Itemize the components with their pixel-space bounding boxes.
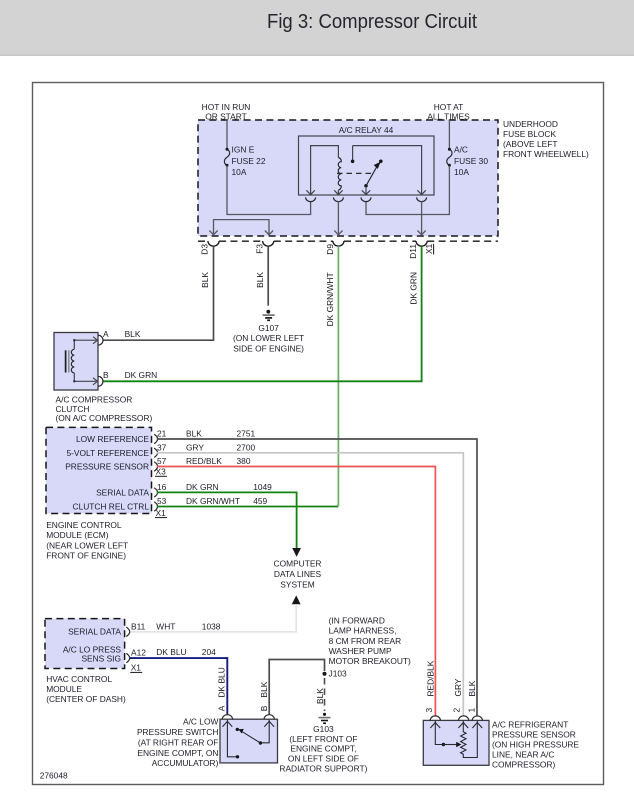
- svg-text:A/C REFRIGERANT: A/C REFRIGERANT: [492, 720, 568, 730]
- svg-text:3: 3: [424, 708, 434, 713]
- label HVAC CONTROL MODULE: [46, 674, 126, 704]
- svg-text:(ON HIGH PRESSURE: (ON HIGH PRESSURE: [492, 740, 579, 750]
- ground G107: [233, 310, 304, 353]
- svg-text:204: 204: [202, 647, 216, 657]
- svg-text:WASHER PUMP: WASHER PUMP: [329, 646, 392, 656]
- relay switch arm: [362, 160, 383, 195]
- svg-text:X3: X3: [156, 466, 167, 476]
- wire DK GRN/WHT D9 to ECM pin 53: [337, 246, 339, 506]
- svg-text:ON LEFT SIDE OF: ON LEFT SIDE OF: [288, 754, 359, 764]
- svg-text:D11: D11: [408, 244, 418, 259]
- svg-text:(ABOVE LEFT: (ABOVE LEFT: [503, 139, 557, 149]
- wire BLK F3 to G107: [267, 246, 269, 305]
- svg-text:8 CM FROM REAR: 8 CM FROM REAR: [329, 636, 402, 646]
- wire DK GRN/WHT 459 pin53: [157, 506, 339, 508]
- HVAC connector X1 label: [130, 662, 142, 672]
- wire label DK GRN 1049: [186, 482, 272, 492]
- wire DK GRN D11 to clutch pin B: [103, 246, 422, 381]
- svg-text:DK GRN: DK GRN: [186, 482, 219, 492]
- wire WHT 1038 HVAC B11 to data lines: [130, 604, 296, 632]
- svg-text:D3: D3: [200, 244, 210, 255]
- node HOT IN RUN OR START: [202, 102, 251, 122]
- svg-text:37: 37: [157, 442, 167, 452]
- relay fixed contact stub: [351, 146, 355, 164]
- svg-text:ACCUMULATOR): ACCUMULATOR): [152, 758, 219, 768]
- relay pin cups: [306, 197, 427, 201]
- svg-text:X1: X1: [156, 508, 167, 518]
- wire BLK pressure switch B to J103: [269, 660, 324, 715]
- label ENGINE CONTROL MODULE (ECM): [46, 520, 128, 561]
- svg-text:LOW REFERENCE: LOW REFERENCE: [76, 434, 149, 444]
- svg-text:DK GRN: DK GRN: [125, 370, 158, 380]
- svg-text:10A: 10A: [454, 167, 469, 177]
- svg-text:X1: X1: [424, 243, 434, 254]
- svg-text:PRESSURE SWITCH: PRESSURE SWITCH: [137, 727, 218, 737]
- svg-text:BLK: BLK: [259, 681, 269, 697]
- svg-text:2700: 2700: [237, 442, 256, 452]
- underhood fuse block box: [198, 120, 498, 236]
- label A/C LOW PRESSURE SWITCH: [137, 717, 219, 769]
- wire DK BLU 204 A12 to pressure switch A: [130, 658, 228, 715]
- ECM connector X3 label: [155, 466, 167, 476]
- svg-text:ENGINE CONTROL: ENGINE CONTROL: [46, 520, 122, 530]
- svg-text:GRY: GRY: [186, 442, 204, 452]
- svg-text:SENS SIG: SENS SIG: [81, 653, 121, 663]
- svg-text:MODULE (ECM): MODULE (ECM): [46, 530, 109, 540]
- svg-text:10A: 10A: [232, 167, 247, 177]
- svg-text:COMPRESSOR): COMPRESSOR): [492, 760, 555, 770]
- svg-text:SYSTEM: SYSTEM: [280, 580, 314, 590]
- svg-text:1: 1: [466, 708, 476, 713]
- svg-text:5-VOLT REFERENCE: 5-VOLT REFERENCE: [66, 448, 149, 458]
- svg-text:(ON A/C COMPRESSOR): (ON A/C COMPRESSOR): [56, 413, 153, 423]
- svg-text:380: 380: [237, 456, 251, 466]
- svg-text:1049: 1049: [253, 482, 272, 492]
- wire BLK 2751 pin21 to sensor pin1: [157, 439, 477, 716]
- svg-text:(AT RIGHT REAR OF: (AT RIGHT REAR OF: [138, 737, 219, 747]
- svg-text:A/C RELAY 44: A/C RELAY 44: [339, 125, 394, 135]
- svg-text:53: 53: [157, 496, 167, 506]
- HVAC pin arcs: [126, 627, 129, 663]
- svg-text:BLK: BLK: [200, 272, 210, 288]
- svg-text:Fig 3: Compressor Circuit: Fig 3: Compressor Circuit: [267, 10, 477, 33]
- svg-text:21: 21: [157, 429, 167, 439]
- svg-text:BLK: BLK: [255, 272, 265, 288]
- svg-text:MODULE: MODULE: [46, 684, 82, 694]
- svg-text:276048: 276048: [40, 771, 68, 781]
- svg-text:1038: 1038: [202, 621, 221, 631]
- relay coil-switch link (dashed): [337, 172, 372, 174]
- svg-text:(IN FORWARD: (IN FORWARD: [329, 615, 385, 625]
- svg-text:2: 2: [451, 708, 461, 713]
- svg-text:LAMP HARNESS,: LAMP HARNESS,: [329, 626, 397, 636]
- svg-text:HOT IN RUN: HOT IN RUN: [202, 102, 251, 112]
- svg-text:UNDERHOOD: UNDERHOOD: [503, 119, 558, 129]
- fuse F22 IGN E 10A: [224, 145, 265, 178]
- svg-text:SERIAL DATA: SERIAL DATA: [96, 487, 149, 497]
- svg-text:BLK: BLK: [315, 688, 325, 704]
- svg-text:GRY: GRY: [453, 678, 463, 696]
- svg-text:(CENTER OF DASH): (CENTER OF DASH): [46, 694, 126, 704]
- svg-text:FRONT WHEELWELL): FRONT WHEELWELL): [503, 149, 589, 159]
- wire hot-at-all-times feed to fuse 30: [448, 120, 450, 149]
- relay coil branch wire: [306, 146, 338, 195]
- svg-text:WHT: WHT: [156, 621, 175, 631]
- header bar: [0, 0, 634, 56]
- svg-text:CLUTCH REL CTRL: CLUTCH REL CTRL: [73, 502, 150, 512]
- svg-text:FUSE BLOCK: FUSE BLOCK: [503, 129, 556, 139]
- svg-text:57: 57: [157, 456, 167, 466]
- pressure sensor R1 A/C REFRIGERANT PRESSURE SENSOR: [423, 716, 489, 765]
- label UNDERHOOD FUSE BLOCK: [503, 119, 589, 159]
- svg-text:DK BLU: DK BLU: [216, 667, 226, 697]
- svg-text:2751: 2751: [237, 429, 256, 439]
- wire DK GRN 1049 pin16 to data lines: [157, 492, 297, 548]
- svg-text:SIDE OF ENGINE): SIDE OF ENGINE): [233, 343, 304, 353]
- svg-text:DK GRN/WHT: DK GRN/WHT: [325, 272, 335, 326]
- svg-text:DK BLU: DK BLU: [156, 647, 186, 657]
- wire GRY 2700 pin37 to sensor pin2: [157, 453, 464, 716]
- wire label RED/BLK 380: [186, 456, 251, 466]
- svg-text:BLK: BLK: [186, 429, 202, 439]
- svg-text:G107: G107: [258, 323, 279, 333]
- wire relay coil- to D9: [334, 201, 342, 235]
- ground G103: [279, 713, 367, 774]
- wire BLK dashed J103 to G103: [324, 678, 326, 711]
- connector X1 label (fuse block): [424, 243, 434, 254]
- svg-text:IGN E: IGN E: [232, 145, 255, 155]
- wire fuse22 to relay coil pin: [227, 166, 311, 215]
- svg-text:(NEAR LOWER LEFT: (NEAR LOWER LEFT: [46, 540, 128, 550]
- svg-text:(LEFT FRONT OF: (LEFT FRONT OF: [289, 734, 357, 744]
- svg-text:459: 459: [253, 496, 267, 506]
- svg-text:F3: F3: [254, 244, 264, 254]
- svg-text:(ON LOWER LEFT: (ON LOWER LEFT: [233, 333, 304, 343]
- svg-text:B: B: [259, 705, 269, 711]
- ECM connector X1 label: [155, 508, 167, 518]
- svg-text:ENGINE COMPT, ON: ENGINE COMPT, ON: [137, 748, 218, 758]
- label A/C COMPRESSOR CLUTCH: [56, 394, 153, 423]
- svg-text:LINE, NEAR A/C: LINE, NEAR A/C: [492, 750, 554, 760]
- svg-text:B11: B11: [131, 621, 146, 631]
- connector face X1 row (dashed with cups): [198, 241, 498, 246]
- relay switch contact wire to pin: [353, 146, 426, 195]
- wire label DK BLU 204: [156, 647, 216, 657]
- svg-text:FUSE 22: FUSE 22: [232, 156, 266, 166]
- svg-text:X1: X1: [131, 662, 142, 672]
- svg-text:HVAC CONTROL: HVAC CONTROL: [46, 674, 112, 684]
- ECM pin arcs: [154, 434, 157, 511]
- svg-text:COMPUTER: COMPUTER: [274, 559, 322, 569]
- svg-text:A/C LOW: A/C LOW: [183, 717, 218, 727]
- arrow from HVAC serial data up: [292, 595, 301, 604]
- svg-text:RADIATOR SUPPORT): RADIATOR SUPPORT): [279, 763, 367, 773]
- svg-text:D9: D9: [325, 244, 335, 255]
- wire bracket D3-F3: [209, 220, 273, 235]
- wire hot-in-run feed to fuse 22: [226, 120, 228, 149]
- ECM box ENGINE CONTROL MODULE: [46, 427, 152, 513]
- svg-text:RED/BLK: RED/BLK: [425, 660, 435, 696]
- svg-text:MOTOR BREAKOUT): MOTOR BREAKOUT): [329, 656, 411, 666]
- svg-text:DATA LINES: DATA LINES: [274, 569, 322, 579]
- relay K44 A/C RELAY 44: [299, 125, 435, 195]
- wire fuse30 to relay switch pin: [366, 166, 449, 215]
- svg-text:ENGINE COMPT,: ENGINE COMPT,: [290, 744, 356, 754]
- svg-text:A12: A12: [131, 647, 146, 657]
- svg-text:BLK: BLK: [125, 329, 141, 339]
- svg-text:SERIAL DATA: SERIAL DATA: [68, 626, 121, 636]
- svg-text:PRESSURE SENSOR: PRESSURE SENSOR: [492, 730, 576, 740]
- svg-text:A/C COMPRESSOR: A/C COMPRESSOR: [56, 394, 133, 404]
- svg-text:HOT AT: HOT AT: [434, 102, 463, 112]
- clutch L2 A/C COMPRESSOR CLUTCH: [54, 333, 103, 391]
- svg-text:PRESSURE SENSOR: PRESSURE SENSOR: [65, 462, 149, 472]
- diagram frame: [33, 83, 604, 785]
- wire label WHT 1038: [156, 621, 220, 631]
- svg-text:DK GRN: DK GRN: [408, 272, 418, 305]
- wire label DK GRN/WHT 459: [186, 496, 268, 506]
- wire RED/BLK 380 pin57 to sensor pin3: [157, 467, 436, 717]
- svg-text:FRONT OF ENGINE): FRONT OF ENGINE): [46, 551, 126, 561]
- label IN FORWARD LAMP HARNESS: [329, 615, 411, 666]
- wire relay contact to D11: [418, 201, 426, 235]
- svg-text:A/C: A/C: [454, 145, 468, 155]
- svg-text:16: 16: [157, 482, 167, 492]
- label A/C REFRIGERANT PRESSURE SENSOR: [492, 720, 579, 770]
- relay coil L1: [334, 158, 342, 195]
- node COMPUTER DATA LINES SYSTEM: [274, 559, 322, 590]
- svg-text:RED/BLK: RED/BLK: [186, 456, 222, 466]
- svg-text:J103: J103: [329, 668, 348, 678]
- svg-text:B: B: [103, 370, 109, 380]
- splice J103: [323, 668, 348, 678]
- node HOT AT ALL TIMES: [427, 102, 470, 122]
- fuse F30 A/C 10A: [447, 145, 489, 178]
- svg-text:DK GRN/WHT: DK GRN/WHT: [186, 496, 240, 506]
- HVAC control module box: [45, 619, 125, 669]
- svg-text:BLK: BLK: [467, 680, 477, 696]
- arrow into computer data lines: [292, 548, 301, 557]
- svg-text:FUSE 30: FUSE 30: [454, 156, 488, 166]
- pressure switch S1 A/C LOW PRESSURE SWITCH: [220, 715, 278, 763]
- wire label GRY 2700: [186, 442, 255, 452]
- svg-text:A: A: [103, 329, 109, 339]
- wire label BLK 2751: [186, 429, 255, 439]
- svg-text:A: A: [216, 705, 226, 711]
- wire BLK D3 to clutch pin A: [103, 246, 214, 340]
- svg-text:G103: G103: [313, 724, 334, 734]
